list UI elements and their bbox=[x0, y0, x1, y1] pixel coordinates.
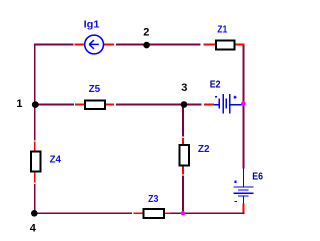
current source Ig1 circle bbox=[85, 35, 104, 54]
node 2 junction dot bbox=[143, 42, 150, 49]
svg-text:Z5: Z5 bbox=[89, 84, 101, 95]
battery E6 long plate 1 bbox=[233, 186, 253, 187]
svg-text:3: 3 bbox=[181, 82, 187, 94]
battery E6 lead bottom (blue) bbox=[243, 197, 244, 204]
battery E2 tall plate 2 bbox=[229, 94, 230, 114]
wire top horizontal middle segment (node2 span) bbox=[116, 44, 201, 46]
resistor Z5 lead right (red) bbox=[106, 104, 114, 106]
node 1 junction dot bbox=[32, 101, 39, 108]
resistor Z4 body bbox=[31, 151, 41, 171]
wire middle horizontal left of Z5 bbox=[35, 104, 74, 106]
wire left vertical upper segment bbox=[34, 44, 36, 141]
battery E6 lead top (blue) bbox=[243, 169, 244, 187]
wire left vertical lower (Z4 to node4) bbox=[34, 184, 36, 213]
node 4 junction dot bbox=[31, 210, 38, 217]
resistor Z2 lead bottom (red) bbox=[182, 166, 184, 174]
wire top horizontal left segment bbox=[34, 44, 74, 46]
battery E2 plus mark bbox=[234, 96, 237, 99]
svg-text:Z4: Z4 bbox=[50, 155, 62, 166]
resistor Z4 lead top (red) bbox=[34, 142, 36, 151]
resistor Z1 lead left (red) bbox=[203, 44, 215, 46]
resistor Z5 lead left (red) bbox=[75, 104, 84, 106]
svg-text:Z1: Z1 bbox=[217, 25, 227, 36]
svg-text:1: 1 bbox=[16, 98, 22, 110]
resistor Z2 body bbox=[180, 145, 190, 165]
resistor Z1 body bbox=[216, 41, 234, 50]
svg-text:E2: E2 bbox=[210, 80, 221, 91]
svg-text:Z3: Z3 bbox=[148, 194, 159, 205]
battery E2 lead left (blue) bbox=[214, 104, 219, 105]
resistor Z1 lead right (red) bbox=[235, 44, 244, 46]
resistor Z4 lead bottom (red) bbox=[34, 173, 36, 183]
svg-text:Z2: Z2 bbox=[198, 144, 210, 155]
battery E6 short plate 2 bbox=[238, 196, 248, 197]
current source Ig1 lead left (red) bbox=[75, 44, 85, 46]
wire bottom horizontal right segment bbox=[171, 212, 245, 214]
battery E2 short plate 2 bbox=[226, 98, 227, 108]
resistor Z3 lead right (red) bbox=[165, 212, 170, 214]
battery E2 minus mark bbox=[215, 96, 217, 98]
svg-text:2: 2 bbox=[143, 27, 149, 39]
resistor Z2 lead top (red) bbox=[182, 138, 184, 144]
wire middle vertical lower (Z2 to bottom) bbox=[182, 176, 184, 213]
battery E2 lead right (blue) bbox=[231, 104, 243, 105]
battery E6 short plate 1 bbox=[238, 190, 248, 191]
battery E2 tall plate 1 bbox=[223, 94, 224, 114]
resistor Z5 body bbox=[85, 101, 105, 109]
wire right vertical bbox=[243, 44, 245, 169]
node 3 junction dot bbox=[181, 101, 188, 108]
resistor Z3 lead left (red) bbox=[134, 212, 143, 214]
battery E2 lead left (red) bbox=[204, 104, 214, 106]
battery E6 minus mark bbox=[235, 201, 238, 202]
node junction dot E2 right (magenta) bbox=[241, 101, 246, 106]
current source Ig1 arrow bbox=[89, 40, 99, 49]
wire middle horizontal right of Z5 to node3 to E2 bbox=[116, 104, 202, 106]
node junction dot Z3-Z2 (magenta) bbox=[181, 211, 185, 215]
svg-text:4: 4 bbox=[30, 222, 37, 234]
battery E6 plus mark bbox=[235, 181, 237, 183]
wire bottom horizontal left segment bbox=[34, 212, 132, 214]
current source Ig1 lead right (red) bbox=[104, 44, 114, 46]
resistor Z3 body bbox=[144, 209, 165, 218]
svg-text:Ig1: Ig1 bbox=[84, 20, 100, 31]
battery E2 short plate 1 bbox=[219, 98, 220, 108]
wire middle vertical upper (node3 to Z2) bbox=[182, 105, 184, 137]
svg-text:E6: E6 bbox=[252, 172, 263, 183]
battery E6 lead bottom (red) bbox=[243, 204, 245, 213]
battery E6 long plate 2 bbox=[233, 193, 253, 194]
